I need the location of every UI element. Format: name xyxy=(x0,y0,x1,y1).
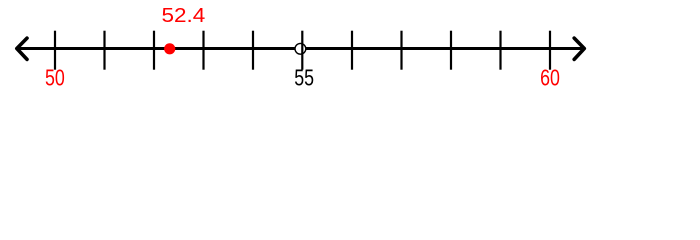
svg-text:55: 55 xyxy=(294,65,314,91)
tick 54 xyxy=(252,31,254,70)
open circle at 55 xyxy=(295,43,306,54)
svg-text:50: 50 xyxy=(45,65,65,91)
tick 59 xyxy=(499,31,501,70)
tick 55 xyxy=(301,31,303,70)
wire number line axis xyxy=(17,47,585,50)
red point at 52.4 xyxy=(164,43,175,54)
tick 56 xyxy=(351,31,353,70)
tick 53 xyxy=(202,31,204,70)
tick 50 xyxy=(54,31,56,70)
tick 57 xyxy=(400,31,402,70)
tick 58 xyxy=(450,31,452,70)
svg-text:52.4: 52.4 xyxy=(161,4,205,27)
tick 52 xyxy=(153,31,155,70)
right arrowhead xyxy=(574,38,584,59)
svg-text:60: 60 xyxy=(540,65,560,91)
tick 51 xyxy=(103,31,105,70)
tick 60 xyxy=(549,31,551,70)
left arrowhead xyxy=(17,38,27,59)
